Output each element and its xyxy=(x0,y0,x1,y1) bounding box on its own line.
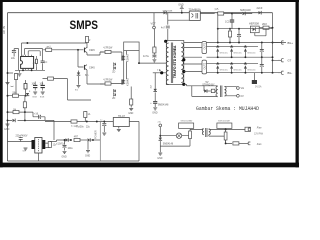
wire row y120.4 with diode xyxy=(8,120,55,140)
diode D row1-1 SR5100 xyxy=(217,45,219,47)
wire bank bus 1b xyxy=(207,56,273,58)
capacitor C out1 xyxy=(261,42,263,44)
ground on top rail xyxy=(181,10,183,13)
ground bar xyxy=(252,80,257,84)
terminal BG+ xyxy=(278,41,284,44)
wire base bus y49.8 xyxy=(43,49,83,51)
node VCT xyxy=(153,13,155,26)
svg-text:C945: C945 xyxy=(89,66,95,69)
wire left AC rail xyxy=(7,13,9,161)
resistor R lower xyxy=(48,77,54,80)
svg-text:1C: 1C xyxy=(44,62,47,64)
wire outputs xyxy=(273,43,279,61)
mosfet Q3 K2645 xyxy=(122,55,125,60)
svg-text:VCT: VCT xyxy=(151,22,157,26)
capacitor vertical xyxy=(237,35,241,37)
svg-text:5R5100v: 5R5100v xyxy=(233,52,242,54)
wire left vertical x18.6 xyxy=(14,49,19,71)
core xyxy=(171,43,172,84)
wire IC loop outer xyxy=(25,48,43,58)
svg-text:220uF400V: 220uF400V xyxy=(16,135,28,137)
wire mid bus to transformer xyxy=(139,62,166,64)
component 12V xyxy=(48,142,51,148)
secondary taps stair wires xyxy=(184,48,202,72)
mosfet Q4 K2645 xyxy=(122,79,125,84)
IC U1 PWM xyxy=(21,57,34,69)
ground below cap xyxy=(24,148,28,150)
wire standby feed from transformer xyxy=(184,84,192,96)
svg-text:100u: 100u xyxy=(68,148,74,150)
diode D6 xyxy=(88,138,91,142)
svg-text:GND: GND xyxy=(152,111,158,114)
diode down xyxy=(159,138,163,141)
transistor Q1 driver xyxy=(85,47,87,52)
ground xyxy=(63,151,67,153)
ground hook on rail xyxy=(6,83,10,85)
outline box xyxy=(166,41,184,85)
capacitor xyxy=(153,102,157,104)
svg-text:SMD4148: SMD4148 xyxy=(158,104,169,107)
resistor R source xyxy=(130,99,133,105)
resistor vertical 650 xyxy=(224,132,227,140)
svg-text:1C3: 1C3 xyxy=(225,20,230,23)
ground below rail xyxy=(6,124,10,126)
wire Q2 base xyxy=(78,50,84,67)
resistor R startup xyxy=(14,74,17,80)
svg-text:4n7w: 4n7w xyxy=(143,55,149,58)
diode below driver xyxy=(77,73,81,76)
wire top bus y43 xyxy=(22,43,88,57)
terminal fan2 xyxy=(248,142,250,145)
fuse F1 1A xyxy=(84,112,87,118)
border frame right xyxy=(296,0,299,167)
line transformer T3 xyxy=(32,140,35,149)
wire standby top xyxy=(187,84,218,91)
svg-text:22nF: 22nF xyxy=(257,6,263,10)
svg-text:SWD4148AT: SWD4148AT xyxy=(218,120,231,123)
wire lower link to opto xyxy=(168,13,190,25)
svg-text:Fan: Fan xyxy=(257,125,262,129)
svg-text:5V/2A: 5V/2A xyxy=(255,86,262,89)
wire down to output bus xyxy=(272,29,274,43)
diode on row xyxy=(13,119,16,123)
svg-text:GND: GND xyxy=(157,158,162,160)
svg-text:GT: GT xyxy=(288,59,292,63)
wires fan loop xyxy=(202,129,245,144)
border frame top xyxy=(0,0,299,2)
wire from box to bottom rail xyxy=(129,122,139,162)
wire drive loop xyxy=(124,51,139,99)
svg-text:5m: 5m xyxy=(23,151,26,153)
node sec pin 3 xyxy=(182,83,185,86)
svg-text:5R5100v: 5R5100v xyxy=(220,69,229,71)
zener below xyxy=(26,93,30,96)
diode D row2-3 SR5100 xyxy=(244,62,246,64)
terminal VH xyxy=(237,87,240,90)
svg-text:BG-: BG- xyxy=(288,71,293,75)
capacitor 4n7 xyxy=(152,55,156,57)
svg-text:22u: 22u xyxy=(11,57,16,60)
wire xyxy=(224,13,232,15)
ground xyxy=(129,109,133,111)
svg-text:ZD: ZD xyxy=(112,98,115,100)
ground below IC xyxy=(19,70,21,73)
svg-text:+16: +16 xyxy=(34,113,39,116)
connector J2 xyxy=(202,60,207,74)
wire bottom of transformer to rail xyxy=(37,153,39,161)
ground xyxy=(152,60,156,62)
svg-text:TRAFO ETD KOREA: TRAFO ETD KOREA xyxy=(173,45,177,78)
resistor R 105 xyxy=(71,120,77,123)
terminal 0V xyxy=(237,94,240,97)
wires to terminals xyxy=(192,86,237,97)
svg-text:5R5100v: 5R5100v xyxy=(247,52,256,54)
svg-text:0V: 0V xyxy=(241,94,244,98)
svg-text:VH: VH xyxy=(241,86,245,90)
capacitor 4n7 xyxy=(166,26,170,28)
zener tap xyxy=(159,72,167,74)
svg-text:HER308: HER308 xyxy=(249,21,259,25)
IC pins bottom xyxy=(23,68,32,70)
wire Q2 emitter down xyxy=(87,70,104,84)
resistor vertical xyxy=(228,31,231,37)
capacitor 103 xyxy=(230,20,234,22)
resistor vertical xyxy=(189,131,192,139)
svg-text:SMPS: SMPS xyxy=(70,18,99,32)
wire zener tap left xyxy=(153,72,159,74)
wire x216 drop xyxy=(217,14,219,43)
transistor Q2 driver xyxy=(85,65,87,70)
svg-text:BG+: BG+ xyxy=(288,41,294,45)
resistor R vertical xyxy=(23,102,26,108)
output bus vertical xyxy=(272,43,274,73)
terminal fan1 xyxy=(248,128,250,131)
svg-text:AC IN: AC IN xyxy=(2,26,6,34)
svg-text:5R5100v: 5R5100v xyxy=(247,69,256,71)
diode D row1-2 SR5100 xyxy=(231,45,233,47)
wire bottom rail xyxy=(8,160,140,162)
svg-text:47u/50v: 47u/50v xyxy=(76,127,85,129)
svg-text:C945: C945 xyxy=(89,49,95,52)
diode D row2-1 SR5100 xyxy=(217,62,219,64)
wires transformer right xyxy=(45,142,50,148)
wire IC bottom bus xyxy=(15,67,45,70)
lamp LED xyxy=(176,133,181,138)
component box xyxy=(245,127,251,131)
border frame bottom xyxy=(0,163,299,168)
svg-text:Gambar Skema : MUJAH4D: Gambar Skema : MUJAH4D xyxy=(196,105,259,112)
svg-text:Fan: Fan xyxy=(257,142,262,146)
svg-text:5R5100v: 5R5100v xyxy=(233,69,242,71)
fuse box xyxy=(211,89,215,92)
svg-text:GND: GND xyxy=(178,4,184,7)
IC pins top xyxy=(23,55,32,57)
cap+gnd at x104 xyxy=(103,121,105,123)
svg-text:4,7R/2W: 4,7R/2W xyxy=(103,80,113,82)
resistor R collector riser xyxy=(85,37,88,43)
node sec pin 1 xyxy=(182,58,185,61)
svg-text:8m: 8m xyxy=(33,63,36,65)
wire bank bus 2a xyxy=(207,62,259,64)
wire bank bus 2b xyxy=(207,72,279,74)
resistor small right of IC xyxy=(36,59,38,63)
wire loop left-bottom of drivers xyxy=(68,79,92,100)
wire top rail xyxy=(8,12,273,14)
svg-text:SWD4148AT: SWD4148AT xyxy=(181,120,194,123)
wires lamp xyxy=(160,129,202,146)
svg-text:5R5100v: 5R5100v xyxy=(220,52,229,54)
diode D5 xyxy=(66,138,69,142)
transformer T2 small xyxy=(216,86,218,97)
svg-text:GND: GND xyxy=(128,113,133,115)
svg-text:SMD4148: SMD4148 xyxy=(240,9,251,12)
ground GND xyxy=(158,153,162,155)
secondary winding xyxy=(181,43,183,83)
terminal BG- xyxy=(278,71,284,74)
wire cap to transformer xyxy=(8,141,32,143)
terminal GT xyxy=(278,59,284,62)
transformer T4 small xyxy=(202,129,204,135)
svg-text:8m: 8m xyxy=(85,74,88,77)
wire Q1 emitter to gate xyxy=(87,52,104,55)
svg-text:1A: 1A xyxy=(88,113,91,116)
resistor R top-right xyxy=(218,12,224,15)
node transformer top pin xyxy=(164,40,167,43)
svg-text:K2645: K2645 xyxy=(126,54,130,62)
svg-text:ZD: ZD xyxy=(112,71,115,73)
resistor R xyxy=(263,26,269,29)
connector J1 xyxy=(202,42,207,54)
svg-text:GND: GND xyxy=(4,128,10,131)
wire x100.3 riser xyxy=(99,122,101,162)
svg-text:4R7: 4R7 xyxy=(74,136,79,138)
wire row y112 xyxy=(8,111,34,113)
svg-text:K2645: K2645 xyxy=(126,78,130,86)
svg-text:OUT1: OUT1 xyxy=(204,42,207,49)
zener ZD1 pair xyxy=(114,63,116,66)
svg-text:12V/FAN: 12V/FAN xyxy=(254,132,264,135)
capacitor right of IC xyxy=(41,61,45,63)
wire row2 y42.5 xyxy=(166,42,286,44)
wire loop top box xyxy=(124,42,139,51)
svg-text:SMD4148: SMD4148 xyxy=(163,143,174,145)
ground 2 xyxy=(87,140,89,150)
primary winding xyxy=(166,43,168,84)
ground xyxy=(41,92,45,94)
ground below diode xyxy=(78,79,80,85)
wire opto to right xyxy=(200,13,214,15)
wire bank bus 1a xyxy=(207,45,259,47)
border frame left xyxy=(0,0,3,167)
svg-text:8m: 8m xyxy=(75,90,78,92)
zener vertical xyxy=(24,84,27,90)
feedback branch: diode down xyxy=(154,73,156,90)
wire rail corner right xyxy=(272,13,274,29)
capacitor 100u xyxy=(64,140,66,145)
svg-text:OUT2: OUT2 xyxy=(204,62,207,69)
svg-text:GND: GND xyxy=(85,156,90,158)
capacitor C out2 xyxy=(260,65,264,67)
svg-text:2R2: 2R2 xyxy=(262,22,267,26)
diode D row2-2 SR5100 xyxy=(231,62,233,64)
wire rail tap xyxy=(8,72,14,74)
primary snubber: resistor left of transformer xyxy=(153,29,155,47)
resistor horizontal xyxy=(233,142,239,145)
capacitor C 22u xyxy=(12,51,16,53)
ground GND xyxy=(153,108,157,110)
wire IC loop inner xyxy=(28,51,40,56)
zener ZD2 pair xyxy=(114,90,116,93)
ground xyxy=(33,92,37,94)
svg-text:GND: GND xyxy=(62,156,67,158)
node sec pin 2 xyxy=(182,70,185,73)
svg-text:4,7R/2W: 4,7R/2W xyxy=(103,48,113,50)
wire lower rail y121.5 xyxy=(45,121,113,123)
diode D row1-3 SR5100 xyxy=(244,45,246,47)
svg-text:POWER: POWER xyxy=(95,130,97,139)
diode xyxy=(204,89,207,93)
